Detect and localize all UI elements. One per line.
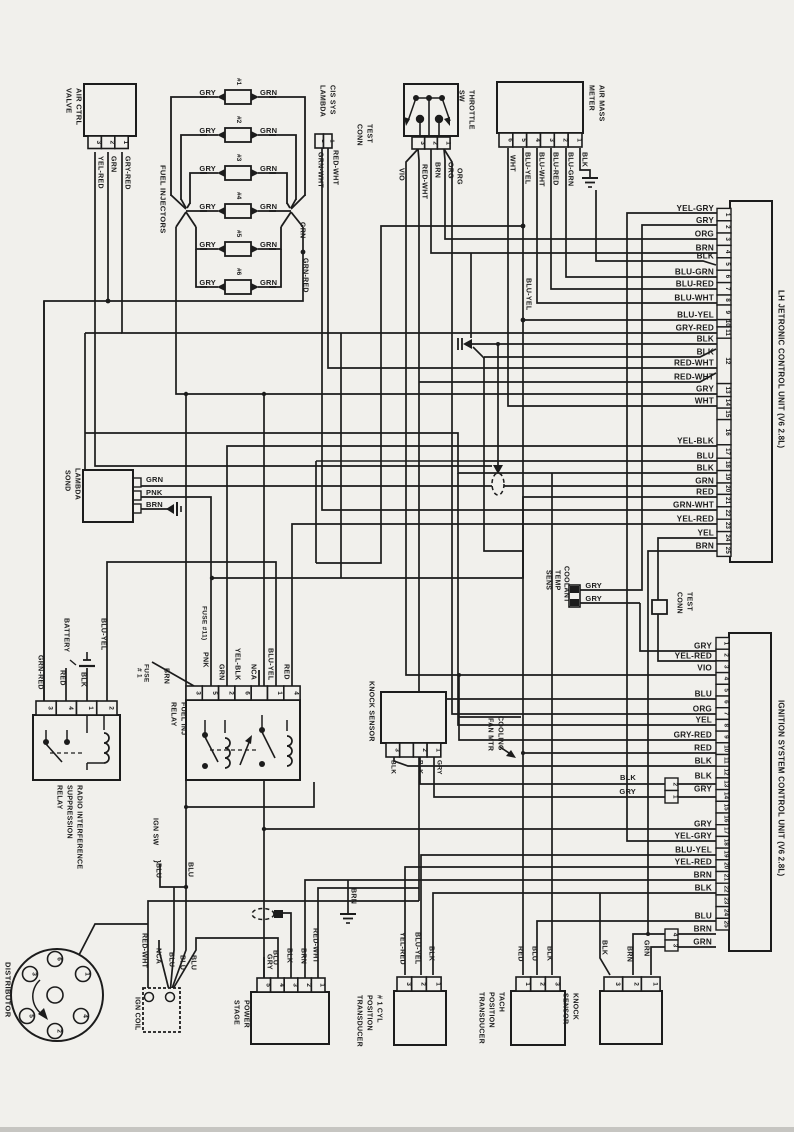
wire WHT air mass pin6 to LH pin14 xyxy=(508,148,717,406)
svg-text:RADIO INTERFERENCE: RADIO INTERFERENCE xyxy=(76,785,83,869)
svg-text:TRANSDUCER: TRANSDUCER xyxy=(478,992,485,1044)
svg-text:BLU-GRN: BLU-GRN xyxy=(675,268,714,277)
lambda sond xyxy=(83,470,133,522)
battery symbol xyxy=(79,665,95,667)
svg-text:3: 3 xyxy=(195,691,202,695)
svg-text:13: 13 xyxy=(723,780,730,788)
svg-text:BLU-RED: BLU-RED xyxy=(552,152,559,186)
wire RED-WHT branch LH pin12 xyxy=(419,373,716,382)
wire YEL-RED air valve pin3 xyxy=(95,152,492,466)
svg-text:POSITION: POSITION xyxy=(366,995,373,1031)
wire BLU to LH pin18 xyxy=(484,460,717,462)
noise suppressor xyxy=(252,909,274,920)
injector #6 xyxy=(200,286,218,288)
svg-text:#5: #5 xyxy=(235,230,242,238)
wire inj X right arms xyxy=(291,195,305,209)
svg-text:BLU-YEL: BLU-YEL xyxy=(675,846,712,855)
svg-text:KNOCK SENSOR: KNOCK SENSOR xyxy=(368,681,375,742)
junction blu trunk top xyxy=(184,392,188,396)
wire BLU-YEL cyl1 pin2 to ign xyxy=(421,855,716,975)
wire BLU-RED air mass pin3 xyxy=(551,148,717,289)
svg-text:BLK: BLK xyxy=(695,772,712,781)
svg-text:GRN: GRN xyxy=(146,475,163,484)
svg-text:GRY: GRY xyxy=(266,954,273,970)
svg-text:18: 18 xyxy=(723,839,730,847)
cis test conn boxes xyxy=(315,134,324,148)
svg-text:19: 19 xyxy=(723,850,730,858)
svg-text:BLU: BLU xyxy=(168,952,175,967)
wire BLU-GRN air mass pin2 xyxy=(566,148,717,277)
svg-text:17: 17 xyxy=(724,448,731,456)
wire GRY power pin5 xyxy=(263,957,265,978)
svg-text:10: 10 xyxy=(723,745,730,753)
wire vert lambda riser xyxy=(84,333,86,470)
svg-text:2: 2 xyxy=(539,982,546,986)
wire line85 to riser458 xyxy=(85,433,717,473)
junction BLU-YEL lower xyxy=(521,318,526,323)
svg-text:GRN-WHT: GRN-WHT xyxy=(317,152,324,188)
svg-text:SW: SW xyxy=(458,90,465,102)
ign unit pin column xyxy=(716,638,729,650)
svg-text:GRN: GRN xyxy=(110,156,117,172)
svg-text:#2: #2 xyxy=(235,116,242,124)
junction gry13 xyxy=(262,392,266,396)
injector #2 xyxy=(200,134,218,136)
wire RED tach to ign xyxy=(523,752,716,754)
svg-text:BLU: BLU xyxy=(190,955,197,970)
svg-text:ORG: ORG xyxy=(447,162,454,179)
wire GRY knock pin1 to connector xyxy=(434,757,665,797)
cyl1 position transducer xyxy=(394,991,446,1045)
wire GRN lambda to connector xyxy=(141,485,492,487)
wire ORG throttle to ign unit xyxy=(444,149,716,714)
svg-text:14: 14 xyxy=(723,792,730,800)
svg-text:GRY-RED: GRY-RED xyxy=(676,324,714,333)
svg-text:TEMP: TEMP xyxy=(554,570,561,591)
wire YEL to ign unit xyxy=(458,473,716,725)
svg-text:25: 25 xyxy=(724,547,731,555)
junction gry16 xyxy=(262,827,266,831)
svg-text:23: 23 xyxy=(723,897,730,905)
svg-text:BLU: BLU xyxy=(531,946,538,961)
svg-text:THROTTLE: THROTTLE xyxy=(468,90,475,130)
wire BLK tach riser xyxy=(551,473,553,975)
svg-text:24: 24 xyxy=(724,534,731,542)
svg-text:13: 13 xyxy=(724,387,731,395)
svg-text:GRN: GRN xyxy=(695,477,714,486)
svg-text:# 1 CYL: # 1 CYL xyxy=(376,995,383,1023)
svg-text:WHT: WHT xyxy=(509,155,516,172)
svg-text:SENS: SENS xyxy=(545,570,552,590)
svg-text:RELAY: RELAY xyxy=(56,785,63,810)
svg-text:LAMBDA: LAMBDA xyxy=(319,85,326,117)
svg-text:BLK: BLK xyxy=(428,946,435,961)
wire BLK feed to arrow connector xyxy=(470,253,472,338)
wire ORG throttle to LH pin3 xyxy=(444,149,717,239)
svg-text:BRN: BRN xyxy=(694,925,712,934)
coolant temp sensor xyxy=(569,585,580,607)
wire inj1 loop xyxy=(171,97,207,196)
svg-text:GRN: GRN xyxy=(693,938,712,947)
air mass meter xyxy=(497,82,583,133)
svg-text:GRN-WHT: GRN-WHT xyxy=(673,501,714,510)
wire GRN air valve pin2 xyxy=(107,152,109,301)
svg-text:BRN: BRN xyxy=(694,871,712,880)
svg-text:IGN SW: IGN SW xyxy=(152,818,159,846)
wire BLK knock2 diagonal xyxy=(600,893,610,975)
connector 2-1 boxes xyxy=(665,778,678,791)
svg-text:WHT: WHT xyxy=(695,397,714,406)
svg-text:8: 8 xyxy=(723,723,730,727)
svg-text:YEL-RED: YEL-RED xyxy=(675,652,712,661)
svg-text:NCA: NCA xyxy=(155,948,162,964)
wire injector GRN-RED bus to radio relay xyxy=(44,227,303,701)
svg-text:16: 16 xyxy=(724,429,731,437)
ground brn xyxy=(340,913,356,915)
svg-text:GRN-RED: GRN-RED xyxy=(302,258,309,293)
svg-text:GRN: GRN xyxy=(218,664,225,680)
svg-text:2: 2 xyxy=(107,706,114,710)
svg-text:BLU-GRN: BLU-GRN xyxy=(567,152,574,186)
svg-text:RED-WHT: RED-WHT xyxy=(312,928,319,964)
svg-text:5: 5 xyxy=(211,691,218,695)
svg-text:BRN: BRN xyxy=(300,948,307,964)
junction BLU-YEL upper xyxy=(521,224,526,229)
test conn box xyxy=(652,600,667,614)
svg-text:1: 1 xyxy=(524,982,531,986)
svg-text:GRY: GRY xyxy=(436,760,443,775)
svg-text:2: 2 xyxy=(723,653,730,657)
wire BLK cyl1 pin1 to ign xyxy=(433,893,716,975)
svg-text:BRN: BRN xyxy=(626,946,633,962)
GRN inline connector xyxy=(492,473,504,495)
junction blu jog xyxy=(184,805,188,809)
svg-text:VIO: VIO xyxy=(398,168,405,181)
wire BRN fuse1 diagonal xyxy=(152,662,194,686)
svg-text:BLU: BLU xyxy=(187,862,194,877)
radio suppression relay xyxy=(33,715,120,780)
svg-text:GRN: GRN xyxy=(643,940,650,956)
injector #5 xyxy=(200,248,218,250)
svg-text:24: 24 xyxy=(723,909,730,917)
ign coil xyxy=(143,988,180,1032)
knock sensor bottom xyxy=(600,991,662,1044)
svg-text:2: 2 xyxy=(56,1029,63,1033)
svg-text:1: 1 xyxy=(122,140,129,144)
wire GRY connector to ign pin13 xyxy=(678,796,716,798)
svg-text:BLU-WHT: BLU-WHT xyxy=(538,152,545,187)
wire inj5 right xyxy=(269,227,281,249)
junction GRN/GRN-RED bus xyxy=(106,299,111,304)
svg-text:BLU: BLU xyxy=(179,955,186,970)
svg-text:1: 1 xyxy=(434,982,441,986)
svg-text:22: 22 xyxy=(723,885,730,893)
svg-text:BLK: BLK xyxy=(417,760,424,774)
svg-text:1: 1 xyxy=(434,748,441,752)
svg-text:ORG: ORG xyxy=(695,230,714,239)
svg-text:TACH: TACH xyxy=(498,992,505,1012)
wire test conn to ign unit xyxy=(658,614,716,661)
wire inj4 right xyxy=(269,210,291,212)
svg-text:GRY: GRY xyxy=(585,594,602,603)
svg-text:GRY: GRY xyxy=(696,385,714,394)
svg-text:4: 4 xyxy=(82,1014,89,1018)
svg-text:YEL: YEL xyxy=(697,529,714,538)
svg-text:21: 21 xyxy=(724,497,731,505)
svg-text:BLU: BLU xyxy=(155,863,162,878)
LH unit pin column xyxy=(717,208,731,220)
svg-text:YEL-RED: YEL-RED xyxy=(677,515,714,524)
svg-text:BLK: BLK xyxy=(695,884,712,893)
svg-text:4: 4 xyxy=(292,691,299,695)
fuel inj relay xyxy=(186,700,300,780)
wire GRN connector to LH pin20 xyxy=(504,485,717,487)
wire GRY coolant lower to ign pin1 xyxy=(580,602,640,604)
wire distributor to coil xyxy=(62,924,148,988)
svg-text:BLU-YEL: BLU-YEL xyxy=(525,278,532,311)
ground air mass xyxy=(582,177,598,179)
svg-text:SUPPRESSION: SUPPRESSION xyxy=(66,785,73,839)
svg-text:16: 16 xyxy=(723,815,730,823)
svg-text:GRY: GRY xyxy=(199,202,216,211)
wire BLU tach pin2 to ign xyxy=(537,921,716,975)
svg-text:GRN-RED: GRN-RED xyxy=(37,655,44,690)
NCA stub fuel relay xyxy=(258,670,260,686)
svg-text:18: 18 xyxy=(724,461,731,469)
power stage xyxy=(251,992,329,1044)
svg-text:GRY: GRY xyxy=(199,126,216,135)
scan edge artifact xyxy=(0,1127,794,1132)
svg-text:3: 3 xyxy=(31,972,38,976)
svg-text:#1: #1 xyxy=(235,78,242,86)
svg-text:BRN: BRN xyxy=(146,500,163,509)
wire GRN-RED label wire xyxy=(43,301,45,701)
svg-text:5: 5 xyxy=(28,1014,35,1018)
svg-text:6: 6 xyxy=(244,691,251,695)
svg-text:8: 8 xyxy=(724,298,731,302)
svg-text:1: 1 xyxy=(444,141,451,145)
svg-text:DISTRIBUTOR: DISTRIBUTOR xyxy=(4,962,13,1018)
svg-text:GRY: GRY xyxy=(199,164,216,173)
wire GRY power stage riser xyxy=(263,394,265,978)
svg-text:12: 12 xyxy=(723,768,730,776)
svg-text:RED: RED xyxy=(694,744,712,753)
wire BLU-YEL to LH pin9 xyxy=(523,319,717,321)
svg-text:20: 20 xyxy=(723,862,730,870)
svg-text:2: 2 xyxy=(420,982,427,986)
connector arrow symbol xyxy=(457,338,459,350)
svg-text:COOLANT: COOLANT xyxy=(563,566,570,603)
connector 4-3 boxes xyxy=(665,929,678,940)
svg-text:BLK: BLK xyxy=(286,948,293,963)
wire BRN connector to ign pin24 xyxy=(678,933,716,935)
svg-text:BLK: BLK xyxy=(697,464,714,473)
ground lambda xyxy=(166,504,174,514)
wire BLU-YEL air mass pin5 xyxy=(212,148,523,578)
svg-text:1: 1 xyxy=(84,972,91,976)
svg-text:YEL-BLK: YEL-BLK xyxy=(234,648,241,680)
wire GRY coolant upper to LH pin2 xyxy=(580,225,717,590)
wire tee GRY-RED to lambda riser xyxy=(85,332,122,334)
svg-text:RED-WHT: RED-WHT xyxy=(674,359,714,368)
junction GRN-RED xyxy=(301,250,306,255)
svg-text:YEL-RED: YEL-RED xyxy=(97,156,104,189)
svg-text:GRN: GRN xyxy=(299,222,306,238)
svg-text:3: 3 xyxy=(553,982,560,986)
svg-text:1: 1 xyxy=(723,642,730,646)
svg-text:RED-WHT: RED-WHT xyxy=(332,150,339,186)
wire YEL-RED cyl1 pin3 to ign xyxy=(405,867,716,975)
svg-text:POWER: POWER xyxy=(243,1000,250,1028)
svg-text:2: 2 xyxy=(672,782,679,786)
svg-text:RED: RED xyxy=(283,664,290,680)
svg-text:1: 1 xyxy=(276,691,283,695)
svg-text:20: 20 xyxy=(724,485,731,493)
svg-text:YEL-GRY: YEL-GRY xyxy=(675,832,713,841)
svg-text:# 1: # 1 xyxy=(136,668,143,678)
svg-text:GRY: GRY xyxy=(199,240,216,249)
svg-text:1: 1 xyxy=(724,213,731,217)
ignition system control unit xyxy=(729,633,771,951)
svg-text:IGN COIL: IGN COIL xyxy=(134,997,141,1031)
svg-text:GRN: GRN xyxy=(260,126,277,135)
svg-text:CIS SYS: CIS SYS xyxy=(329,85,336,115)
svg-text:METER: METER xyxy=(588,85,595,111)
svg-text:22: 22 xyxy=(724,509,731,517)
wire BLK z-jog to LH pin11 xyxy=(484,461,523,578)
svg-text:2: 2 xyxy=(227,691,234,695)
svg-text:BLK: BLK xyxy=(620,773,636,782)
junction brn xyxy=(646,932,650,936)
svg-text:YEL-BLK: YEL-BLK xyxy=(677,437,714,446)
svg-text:FUSE: FUSE xyxy=(143,664,150,683)
svg-text:BLK: BLK xyxy=(697,348,714,357)
svg-text:3: 3 xyxy=(614,982,621,986)
svg-text:BLU: BLU xyxy=(695,690,712,699)
wire inj2 loop xyxy=(181,135,207,200)
svg-text:SOND: SOND xyxy=(64,470,71,491)
svg-text:BLK: BLK xyxy=(697,252,714,261)
wire RED-WHT cis to LH pin12 xyxy=(328,148,717,368)
svg-text:AIR MASS: AIR MASS xyxy=(598,85,605,122)
svg-text:YEL-GRY: YEL-GRY xyxy=(677,204,715,213)
svg-text:GRN: GRN xyxy=(260,240,277,249)
svg-text:GRY: GRY xyxy=(694,642,712,651)
wire BRN power stage to ign xyxy=(305,880,716,978)
injector #1 xyxy=(200,96,218,98)
svg-text:YEL-RED: YEL-RED xyxy=(399,932,406,965)
svg-text:ORG: ORG xyxy=(693,705,712,714)
wire inj4 left xyxy=(186,210,207,212)
svg-text:GRY-RED: GRY-RED xyxy=(124,156,131,190)
svg-text:5: 5 xyxy=(723,688,730,692)
svg-text:#4: #4 xyxy=(235,192,242,200)
wire RED tach to LH pin21 xyxy=(523,497,717,975)
svg-text:#3: #3 xyxy=(235,154,242,162)
svg-text:11: 11 xyxy=(724,329,731,336)
svg-text:9: 9 xyxy=(724,311,731,315)
svg-text:BRN: BRN xyxy=(696,542,714,551)
svg-text:CONN: CONN xyxy=(356,124,363,146)
svg-text:RED-WHT: RED-WHT xyxy=(674,373,714,382)
cooling fan arrow xyxy=(500,747,512,755)
junction cooling xyxy=(457,673,461,677)
wire cooling fan stub xyxy=(459,716,521,718)
svg-text:GRY: GRY xyxy=(619,787,636,796)
svg-text:GRY: GRY xyxy=(696,216,714,225)
junction conn feed xyxy=(496,342,500,346)
svg-text:PNK: PNK xyxy=(146,488,163,497)
svg-text:3: 3 xyxy=(47,706,54,710)
svg-text:PNK: PNK xyxy=(202,652,209,668)
svg-text:21: 21 xyxy=(723,874,730,882)
svg-text:GRY: GRY xyxy=(585,581,602,590)
svg-text:VALVE: VALVE xyxy=(65,88,74,113)
svg-text:15: 15 xyxy=(724,410,731,418)
wire BLK knock pin3 to ign pin11 xyxy=(394,757,716,766)
wire riser 484 upper xyxy=(483,357,485,461)
svg-text:FUEL INJ: FUEL INJ xyxy=(180,702,187,735)
wire GRY riser to ign pin1 xyxy=(640,603,716,651)
svg-text:11: 11 xyxy=(723,757,730,764)
svg-text:6: 6 xyxy=(723,700,730,704)
wire BLU coil trunk xyxy=(170,394,186,994)
wire inj6 right xyxy=(269,249,281,287)
svg-text:BLU: BLU xyxy=(697,452,714,461)
wire IGN SW BLU stub xyxy=(160,864,186,887)
svg-text:4: 4 xyxy=(672,933,679,937)
svg-text:TEST: TEST xyxy=(366,124,373,144)
svg-text:FUEL INJECTORS: FUEL INJECTORS xyxy=(159,165,168,234)
svg-text:RED: RED xyxy=(696,488,714,497)
injector #4 xyxy=(200,210,218,212)
svg-text:FUSE #11): FUSE #11) xyxy=(201,606,208,641)
svg-text:14: 14 xyxy=(724,399,731,407)
svg-text:CONN: CONN xyxy=(676,592,683,614)
wire NCA ign coil stub xyxy=(159,940,170,994)
svg-text:BLK: BLK xyxy=(390,760,397,774)
wire GRN connector feed xyxy=(497,344,499,466)
svg-text:12: 12 xyxy=(724,357,731,365)
svg-text:10: 10 xyxy=(724,320,731,328)
wire PNK lambda to fuel relay xyxy=(141,497,211,686)
wire inj5 left xyxy=(196,227,207,249)
svg-text:1: 1 xyxy=(87,706,94,710)
svg-text:NCA: NCA xyxy=(250,664,257,680)
wire YEL-BLK relay to LH pin17 xyxy=(227,446,717,686)
svg-text:3: 3 xyxy=(405,982,412,986)
svg-text:BLK: BLK xyxy=(581,152,588,167)
svg-text:YEL: YEL xyxy=(695,716,712,725)
svg-text:ORG: ORG xyxy=(456,168,463,185)
wire YEL-GRY LH pin1 to ign unit xyxy=(627,213,717,841)
svg-text:5: 5 xyxy=(724,262,731,266)
svg-text:9: 9 xyxy=(723,735,730,739)
svg-text:FAN MTR: FAN MTR xyxy=(487,718,494,751)
svg-text:1: 1 xyxy=(319,983,326,987)
wire GRY-RED riser at 341 xyxy=(340,333,342,578)
wire BLU jog xyxy=(187,782,314,807)
svg-text:BRN: BRN xyxy=(434,162,441,178)
wire riser 316 jog xyxy=(315,461,317,563)
svg-text:GRN: GRN xyxy=(260,164,277,173)
wire BLU ign pin4 xyxy=(417,698,716,700)
svg-text:BLU: BLU xyxy=(695,912,712,921)
wire GRN connector to ign pin25 xyxy=(678,946,716,948)
wire BLK air mass pin1 to ground xyxy=(580,148,590,178)
svg-text:BLU-YEL: BLU-YEL xyxy=(100,618,107,651)
svg-text:#6: #6 xyxy=(235,268,242,276)
